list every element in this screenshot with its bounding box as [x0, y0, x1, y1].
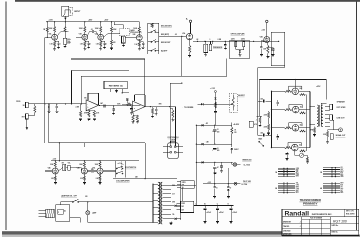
svg-text:DEEP: DEEP: [67, 43, 71, 45]
wire to driver: [159, 35, 187, 37]
svg-text:YEL: YEL: [172, 214, 175, 216]
wire input jack to rail: [64, 16, 66, 22]
wire OT primary top: [310, 106, 315, 108]
relay box pins: [177, 203, 181, 205]
diode rect secondary 1: [171, 205, 174, 207]
svg-text:FOOTSWITCH: FOOTSWITCH: [126, 167, 138, 169]
ground filament cap: [230, 221, 233, 223]
wire mains neutral: [70, 216, 80, 218]
cathode cap V3B: [261, 40, 264, 42]
svg-text:.02: .02: [196, 39, 198, 41]
OT secondary taps: [325, 106, 330, 108]
svg-text:.02: .02: [91, 29, 93, 31]
wire module to switch: [59, 202, 61, 205]
primary bus: [152, 184, 154, 222]
output transformer primary: [317, 105, 319, 127]
svg-text:VOL: VOL: [68, 162, 71, 164]
ground cathode V1B: [84, 47, 86, 49]
svg-text:REVERB 1A: REVERB 1A: [109, 84, 123, 87]
svg-text:RED: RED: [172, 185, 175, 187]
cap fx 1: [48, 104, 50, 106]
svg-text:6.3V: 6.3V: [172, 193, 175, 195]
svg-text:BLU: BLU: [296, 192, 299, 194]
op-amp U1B: [133, 101, 145, 112]
rail filament: [194, 205, 234, 207]
cap filter 2: [213, 147, 216, 149]
wire rail feed 2: [84, 143, 86, 147]
pot GAIN dashed box: [120, 28, 130, 36]
ground pot presence: [205, 53, 207, 55]
switch channel select: [103, 170, 116, 172]
cap rail 2: [212, 41, 214, 44]
ground bias: [306, 161, 309, 163]
power switch: [60, 201, 72, 203]
feedback loop U1A: [87, 93, 89, 100]
input jack dashed extension: [69, 7, 73, 9]
rail rect 3: [196, 161, 231, 163]
line out jack: [339, 128, 343, 132]
wire return jack: [28, 114, 35, 116]
wire send jack: [28, 103, 35, 105]
relay box lower: [181, 201, 194, 212]
footswitch pin 4: [174, 151, 176, 153]
svg-text:FOOTSWITCH: FOOTSWITCH: [168, 137, 180, 139]
wire drop 1 upper: [214, 168, 216, 184]
svg-text:+330: +330: [261, 29, 265, 31]
wire lamp bottom: [87, 215, 89, 223]
cap U1B in: [144, 94, 146, 97]
ground bypass V1A: [57, 46, 60, 48]
svg-text:LDR1: LDR1: [231, 38, 235, 40]
svg-text:YEL: YEL: [340, 190, 343, 192]
resistor 2.2K lineout: [327, 130, 329, 131]
ground V2B: [138, 47, 140, 49]
ground filament cap: [204, 221, 207, 223]
resistor plate V1B 100K: [84, 22, 86, 27]
power entry module: [56, 205, 70, 222]
cap fx 2: [56, 104, 58, 106]
svg-text:LINE OUT: LINE OUT: [337, 118, 346, 120]
grid wire V1A: [45, 36, 52, 38]
svg-text:ORG: ORG: [296, 185, 299, 187]
svg-text:10: 10: [230, 188, 232, 190]
wire plate: [299, 109, 310, 111]
cathode bypass cap V2A: [101, 40, 105, 42]
cap mid: [113, 106, 115, 109]
title small text top right: [344, 209, 346, 217]
secondary taps: [162, 184, 171, 186]
svg-text:VIO: VIO: [340, 167, 342, 169]
svg-text:10: 10: [217, 129, 219, 131]
svg-text:GRN: GRN: [172, 202, 175, 204]
svg-text:RGT 100: RGT 100: [333, 220, 347, 224]
wire standby to relay box: [182, 188, 184, 201]
rail rect 1: [196, 124, 231, 126]
svg-text:GRN: GRN: [340, 176, 343, 178]
resistor input gnd: [80, 104, 82, 111]
svg-text:10: 10: [217, 148, 219, 150]
ground cathode V1A: [54, 47, 56, 49]
tube V2A: [98, 34, 104, 40]
reverb tank lead 2: [121, 89, 123, 93]
svg-text:COIL AMPLIFIER: COIL AMPLIFIER: [116, 180, 130, 183]
pot reverb resistor: [232, 95, 234, 97]
title grid v1: [309, 219, 311, 235]
svg-text:PRIMARY: PRIMARY: [303, 202, 319, 206]
ground NFB: [314, 133, 316, 135]
svg-text:GRY: GRY: [340, 188, 343, 190]
svg-text:+220uF: +220uF: [232, 212, 237, 214]
wire V2B output: [142, 37, 148, 39]
svg-text:BRN: BRN: [296, 176, 299, 178]
op-amp U1A: [86, 100, 98, 111]
pot reverb ADJUST dashed: [229, 93, 237, 112]
svg-text:2.2K: 2.2K: [80, 178, 83, 180]
wire OT top feed: [320, 103, 322, 105]
svg-text:220K: 220K: [113, 29, 116, 31]
tube P3 6L6: [292, 125, 299, 132]
wire grid tube P1: [272, 90, 285, 92]
grid stopper resistor tube P2: [285, 109, 293, 111]
tube V3B: [264, 37, 270, 43]
ground cathode V2A: [100, 47, 102, 49]
svg-text:1K: 1K: [234, 130, 236, 132]
grid stopper resistor tube P1: [285, 90, 293, 92]
svg-text:+250V: +250V: [104, 20, 108, 22]
wire tank return top: [71, 58, 145, 60]
ground pot gain: [122, 43, 124, 45]
switch bank DS1: [147, 23, 149, 54]
ground bypass V1B: [87, 46, 90, 48]
title grid v2: [321, 219, 323, 235]
connector P3 header: [323, 167, 340, 169]
connector P1 header: [278, 167, 295, 169]
svg-text:F: F: [58, 212, 59, 214]
label rail1 B+: [231, 123, 233, 126]
grid wire V4A: [45, 170, 52, 172]
svg-text:LDR2: LDR2: [241, 38, 245, 40]
cathode network ch tube1: [54, 174, 56, 176]
resistor switch bank top: [151, 23, 153, 27]
input jack switch contact: [63, 13, 65, 16]
wire rail feed: [58, 143, 60, 161]
wire channel box right: [144, 143, 146, 179]
input jack tip contact: [65, 10, 70, 14]
svg-text:WHT: WHT: [340, 171, 343, 173]
tube P3 pin loop: [289, 123, 302, 128]
wire grid tube P3: [272, 127, 285, 129]
optocoupler box: [229, 41, 249, 58]
ground drop 1: [213, 196, 216, 198]
drop to gnd A: [221, 162, 223, 165]
cap filament: [230, 206, 232, 208]
tube P1 pin loop: [289, 86, 302, 91]
svg-text:(PULL BOOST): (PULL BOOST): [130, 32, 142, 34]
wire plate: [299, 147, 310, 149]
svg-text:INPUT: INPUT: [74, 11, 81, 13]
svg-text:NFB: NFB: [310, 129, 313, 131]
ground ch tube3: [99, 181, 101, 183]
svg-text:PRESENCE: PRESENCE: [213, 47, 223, 49]
svg-text:BRN: BRN: [296, 187, 299, 189]
resistor chain left upper: [268, 111, 270, 112]
cap filament: [217, 206, 219, 208]
LDR1 element: [235, 41, 237, 42]
title right rows: [330, 223, 358, 225]
svg-text:SHT 1 OF 1: SHT 1 OF 1: [346, 211, 354, 213]
svg-text:← TO REVERB: ← TO REVERB: [182, 107, 194, 109]
grid stopper resistor tube P3: [285, 127, 293, 129]
cap grid upper: [277, 100, 279, 102]
wire into V1B grid: [76, 37, 82, 39]
svg-text:LAMP/SW ON - OFF: LAMP/SW ON - OFF: [61, 194, 77, 197]
bias cap: [286, 152, 288, 153]
svg-text:EQ BYP: EQ BYP: [161, 51, 168, 53]
cap grid lower: [277, 134, 279, 136]
AC plug: [39, 210, 46, 212]
svg-text:.02: .02: [91, 169, 93, 171]
svg-text:RED: RED: [296, 190, 299, 192]
wire main in: [257, 115, 263, 117]
wire grid tube P4: [272, 147, 285, 149]
cap presence: [210, 41, 212, 44]
svg-text:OPTOCOUPLER: OPTOCOUPLER: [231, 34, 246, 36]
svg-text:STBY: STBY: [182, 182, 186, 184]
speaker jack 1: [330, 104, 333, 110]
svg-text:RED: RED: [340, 174, 343, 176]
tube V1B: [82, 34, 88, 40]
tube P4 pin loop: [288, 143, 301, 148]
connector P2 header: [278, 182, 295, 184]
pilot led psu: [234, 182, 237, 185]
wire reverb box top outer: [72, 69, 130, 71]
svg-text:DS1 (BOOST): DS1 (BOOST): [161, 26, 172, 28]
bias resistor: [304, 154, 308, 156]
cathode resistor V2A: [100, 40, 102, 41]
svg-text:+300: +300: [53, 159, 57, 161]
svg-text:+: +: [212, 149, 213, 151]
svg-text:+: +: [212, 131, 213, 133]
wire loop around phase inverter: [271, 32, 285, 65]
title grid h rows: [282, 223, 330, 225]
resistor plate V1A 100K: [54, 22, 56, 27]
psu terminal circle: [214, 91, 216, 93]
resistor psu riser: [214, 102, 216, 108]
cathode bypass cap V1B: [85, 40, 89, 42]
svg-text:10K: 10K: [84, 98, 87, 100]
resistor main in: [259, 117, 261, 123]
tube V1A: [52, 34, 58, 40]
rail low volt: [203, 183, 240, 185]
transformer T1 core: [159, 182, 161, 224]
secondary bus: [180, 185, 182, 220]
optocoupler diode: [239, 50, 241, 52]
reverb tank ground arrow: [116, 89, 118, 90]
wire OT primary bottom: [310, 124, 315, 126]
svg-text:6L6: 6L6: [299, 145, 302, 147]
wire OT riser: [325, 80, 327, 100]
LED power: [232, 161, 233, 163]
svg-text:PILOT LED: PILOT LED: [243, 181, 252, 183]
svg-text:CHECKED: CHECKED: [283, 230, 291, 232]
grid bus power tubes: [271, 91, 273, 147]
wire reverb input: [35, 103, 86, 105]
coupling cap V1A-V1B: [57, 32, 60, 36]
svg-text:BLK: BLK: [340, 173, 343, 175]
title v left col: [301, 217, 303, 236]
output transformer secondary: [321, 105, 323, 127]
bias trimpot: [299, 153, 303, 157]
cathode network ch tube3: [99, 174, 101, 176]
screen resistors: [300, 94, 306, 96]
svg-text:6L6: 6L6: [300, 125, 303, 127]
resistor plate V2A 100K: [100, 22, 102, 27]
wire channel box top: [49, 142, 145, 144]
svg-text:WHT: WHT: [340, 183, 343, 185]
resistor driver cathode: [189, 40, 191, 46]
svg-text:DWG No.: DWG No.: [332, 231, 339, 233]
tube V4A: [52, 168, 58, 174]
wire long vertical left: [44, 37, 46, 142]
svg-text:GREEN LED: GREEN LED: [242, 159, 252, 161]
resistor between jacks: [34, 104, 36, 106]
wire grid tube P2: [272, 109, 285, 111]
diode rect 1: [202, 124, 204, 126]
coupling cap V1B-V2A: [88, 32, 90, 36]
ground V3B: [267, 53, 269, 56]
resistor U1B bias: [132, 115, 134, 122]
feedback loop U1B: [134, 95, 136, 101]
cap drop 1: [214, 166, 216, 168]
rail rect 2: [196, 143, 231, 145]
svg-text:MID BOOST: MID BOOST: [161, 42, 172, 44]
footswitch connector shell: [168, 143, 179, 159]
wire lamp drop: [87, 202, 89, 211]
svg-text:+285V: +285V: [88, 20, 92, 22]
cathode network ch tube2: [83, 174, 85, 176]
footswitch pin 1: [170, 146, 172, 148]
svg-text:6L6: 6L6: [300, 107, 303, 109]
svg-text:100K: 100K: [117, 103, 120, 105]
ground drop 2: [227, 196, 230, 198]
tube P4 6L6: [292, 144, 299, 151]
screen bus: [305, 95, 307, 151]
tube P1 6L6: [292, 88, 299, 95]
mech link dashed: [120, 162, 122, 171]
cathode bypass cap V1A: [55, 40, 59, 42]
svg-text:.02: .02: [175, 34, 177, 36]
wire driver plate rail: [193, 40, 279, 42]
svg-text:B+: B+: [186, 19, 188, 21]
component 4.7K aux: [249, 121, 253, 127]
ground filament cap: [216, 221, 219, 223]
svg-text:Randall: Randall: [285, 210, 310, 217]
wire footswitch drop: [169, 83, 171, 147]
border top edge: [15, 0, 360, 2]
cap below rail 2: [227, 184, 229, 187]
title divider h1: [282, 216, 359, 218]
title v mid: [329, 217, 331, 236]
FX return jack: [26, 114, 29, 119]
ground below return jack: [26, 119, 28, 127]
svg-text:100K+: 100K+: [67, 39, 71, 41]
cathode network V2B: [138, 41, 140, 42]
wire V2A out to gain: [104, 34, 108, 37]
wire plate: [299, 90, 310, 92]
coupling cap upper: [258, 100, 263, 102]
border right edge: [355, 2, 357, 231]
tube V2B: [136, 35, 142, 41]
resistor plate ch tube3: [99, 162, 101, 168]
standby switch box: [181, 181, 195, 189]
svg-text:.022: .022: [260, 98, 263, 100]
border left edge: [5, 2, 7, 231]
footswitch pin 3: [170, 151, 172, 153]
grid stopper resistor tube P4: [285, 147, 293, 149]
wire psu riser: [214, 93, 216, 126]
wire to standby: [113, 178, 177, 180]
wire U1 output: [99, 104, 102, 107]
wire psu bus vertical: [195, 125, 197, 205]
primary taps: [153, 183, 158, 185]
pilot lamp: [86, 211, 90, 215]
B+ terminal driver: [189, 20, 191, 22]
boost chain right: [111, 22, 113, 27]
svg-text:BLK: BLK: [340, 185, 343, 187]
ground optocoupler: [239, 53, 241, 55]
ground bypass V2A: [103, 46, 106, 48]
ground ch tube1: [54, 181, 56, 183]
LDR2 element: [243, 41, 245, 42]
component line out: [330, 134, 333, 140]
wire B+ feed riser: [258, 80, 260, 117]
junction loop: [278, 41, 279, 42]
svg-text:RED: RED: [340, 192, 343, 194]
cap filter 3: [214, 162, 216, 166]
tube V3A driver: [186, 33, 192, 39]
svg-text:220K: 220K: [264, 127, 267, 129]
title row file: [302, 218, 331, 220]
svg-text:10: 10: [216, 188, 218, 190]
svg-text:SPEAKER: SPEAKER: [337, 100, 346, 103]
tube P2 pin loop: [289, 105, 302, 110]
resistor plate ch tube1: [54, 162, 56, 168]
plate feed V2B: [138, 22, 140, 27]
wire reverb box left outer: [71, 70, 73, 104]
switch contact: [148, 31, 151, 33]
standby pins: [177, 181, 181, 183]
wire footswitch drop 2: [175, 107, 177, 147]
resistor between footswitch wires: [172, 110, 174, 118]
ground chain left: [267, 132, 270, 134]
tube V5A: [97, 168, 103, 174]
pot GAIN: [122, 36, 126, 43]
svg-text:2.2K: 2.2K: [51, 178, 54, 180]
title block border: [282, 209, 359, 235]
wire plate tube P1 to rail: [294, 80, 296, 88]
svg-text:MID (BRT): MID (BRT): [161, 34, 170, 36]
svg-text:.1: .1: [256, 120, 257, 122]
FX send jack: [26, 102, 29, 107]
RC to ground at output: [152, 107, 154, 108]
cathode resistor V1B: [84, 40, 86, 41]
svg-text:PULL: PULL: [67, 41, 71, 43]
wire line out: [333, 117, 335, 119]
wire B+ feed: [259, 79, 326, 81]
svg-text:+15V: +15V: [208, 182, 212, 184]
svg-text:RLY: RLY: [181, 206, 184, 208]
wire reverb inner top: [81, 75, 226, 77]
